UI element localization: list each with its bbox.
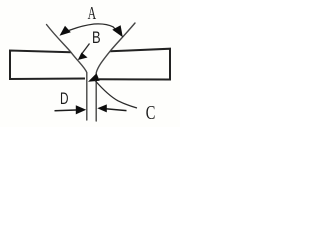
C leader curve from root to label [95,81,137,109]
B leader [82,44,90,54]
D arrowhead pointing right at left root line [76,105,86,114]
right groove face line (extended above plate) [96,23,135,121]
A left arrowhead [60,26,71,36]
svg-text:A: A [88,3,97,23]
svg-text:D: D [60,89,69,108]
A leader arc [63,24,119,33]
left plate [10,51,85,80]
B arrowhead [78,53,88,61]
svg-text:C: C [146,103,156,124]
C arrowhead pointing left at root face line [97,104,107,112]
left groove face line (extended above plate) [47,25,87,121]
svg-text:B: B [92,29,101,47]
D horizontal arrow line [55,109,77,112]
A right arrowhead [112,25,123,37]
C horizontal arrow line [106,109,127,111]
root face arrowhead (filled triangle at root, end of C leader) [88,73,100,82]
right plate [99,49,170,80]
